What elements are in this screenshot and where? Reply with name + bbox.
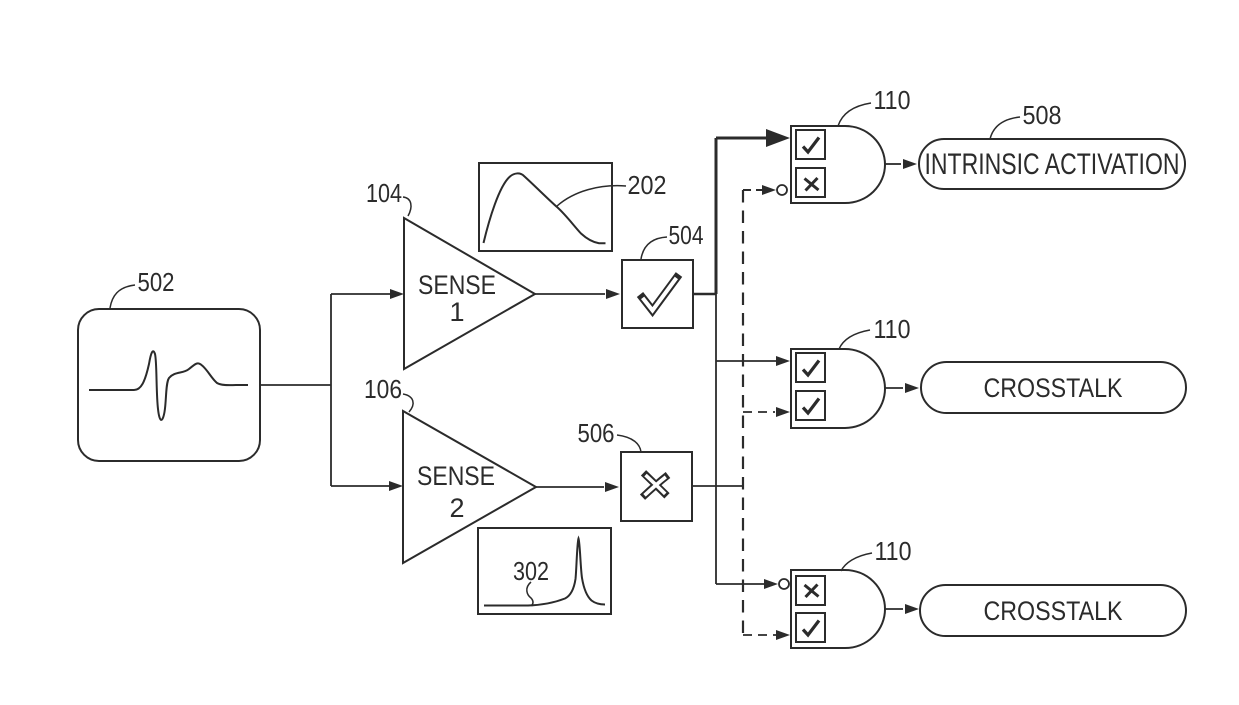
svg-text:110: 110 [875,536,912,566]
curve in 202 [484,173,606,243]
wire to gate2 input2 (dashed) [743,411,775,413]
output pill CROSSTALK (middle) [921,362,1186,413]
curve in 302 [484,539,605,606]
wire to gate3 input2 (dashed) [743,634,776,636]
gate2 check box B [796,391,825,420]
waveform inside 502 [89,351,248,420]
leader 104 [403,197,411,216]
svg-text:1: 1 [449,297,464,327]
wire to gate1 input1 (thick) [716,137,770,140]
wire 504 output to solid bus [693,293,716,296]
svg-text:CROSSTALK: CROSSTALK [984,596,1123,626]
leader 502 [110,285,135,308]
svg-text:508: 508 [1023,100,1062,130]
leader 110 middle [839,330,870,349]
AND gate U2 (110, middle) [791,349,885,428]
wire SENSE1 to 504 [535,293,605,295]
wire gate3 to pill crosstalk2 [885,608,903,610]
solid bus vertical thick (up) [715,138,718,294]
leader 106 [403,394,413,412]
wire to gate3 input1 (inverted) [716,583,765,585]
wire branch to SENSE2 [331,485,391,487]
gate3 x box [796,576,825,605]
AND gate U3 (110, bottom) [791,570,885,648]
leader 506 [617,435,641,452]
gate1 check box [796,130,825,159]
svg-text:106: 106 [364,374,402,404]
svg-text:SENSE: SENSE [417,461,495,491]
svg-text:2: 2 [449,493,464,523]
wire gate1 to pill 508 [885,163,901,165]
svg-text:302: 302 [513,556,549,586]
wire 502 to branch [260,384,331,386]
svg-text:202: 202 [628,170,667,200]
svg-text:110: 110 [874,85,911,115]
gate2 check box A [796,353,825,382]
svg-text:104: 104 [366,178,402,208]
wire 506 output to dashed bus [692,485,743,487]
wire gate2 to pill crosstalk1 [885,387,903,389]
svg-text:504: 504 [669,220,704,250]
leader 202 [557,186,626,206]
AND gate U1 (110, top) [791,126,885,203]
output pill CROSSTALK (bottom) [920,585,1186,636]
leader 508 [990,117,1020,139]
amplifier SENSE 1 (104) [404,218,535,369]
gate3 check box [796,613,825,642]
output pill 508 INTRINSIC ACTIVATION [919,139,1185,189]
svg-text:INTRINSIC ACTIVATION: INTRINSIC ACTIVATION [925,148,1180,181]
wire branch to SENSE1 [331,293,392,295]
dashed bus vertical [742,190,744,635]
solid bus vertical thin (down) [715,294,717,584]
leader 504 [641,237,667,259]
svg-text:110: 110 [874,314,911,344]
box 502 (signal source) [78,309,260,461]
svg-text:SENSE: SENSE [418,270,496,300]
wire SENSE2 to 506 [536,486,604,488]
graph box 302 [478,528,611,614]
comparator box 504 (check) [622,260,693,328]
gate1 x box [796,168,825,197]
svg-text:506: 506 [578,418,615,448]
svg-text:CROSSTALK: CROSSTALK [984,373,1123,403]
wire to gate2 input1 [716,360,777,362]
graph box 202 [479,163,612,251]
amplifier SENSE 2 (106) [403,411,536,563]
leader 110 bottom [841,553,872,571]
svg-text:502: 502 [138,267,175,297]
comparator box 506 (x) [621,452,692,521]
wire to gate1 input2 (dashed, inverted) [743,189,762,191]
branch vertical wire [330,294,332,486]
leader 110 top [838,103,871,126]
leader 302 [527,582,533,606]
